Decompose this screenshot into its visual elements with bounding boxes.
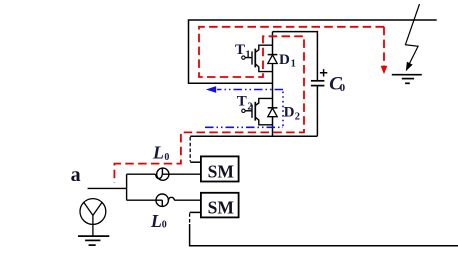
svg-text:L: L xyxy=(152,143,164,163)
svg-text:1: 1 xyxy=(245,50,250,61)
svg-text:D: D xyxy=(279,52,290,68)
svg-text:2: 2 xyxy=(247,102,252,113)
svg-text:SM: SM xyxy=(208,197,235,217)
svg-text:2: 2 xyxy=(295,111,300,122)
svg-text:0: 0 xyxy=(340,82,346,94)
svg-text:SM: SM xyxy=(208,161,235,181)
svg-text:D: D xyxy=(284,104,295,120)
svg-text:0: 0 xyxy=(162,219,167,230)
svg-text:a: a xyxy=(71,164,81,186)
svg-text:L: L xyxy=(150,211,162,231)
svg-text:1: 1 xyxy=(291,59,296,70)
svg-text:T: T xyxy=(235,42,245,58)
svg-text:T: T xyxy=(237,94,247,110)
svg-text:0: 0 xyxy=(164,152,169,163)
